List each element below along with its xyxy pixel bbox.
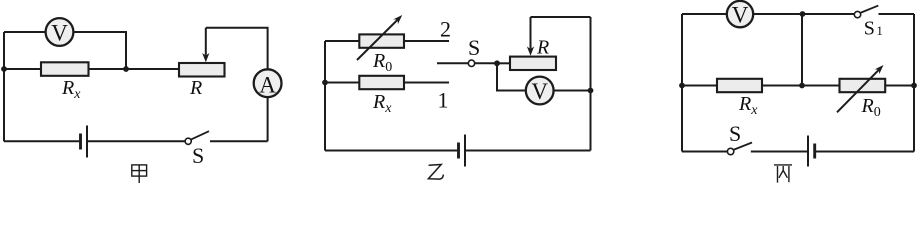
wire slider to ammeter C1 <box>206 28 268 69</box>
svg-text:S: S <box>729 121 741 146</box>
voltmeter V3 <box>727 1 753 28</box>
wire Rx to middle node C3 <box>762 85 802 87</box>
wire Rx to terminal 1 C2 <box>404 82 449 84</box>
switch S C1 <box>185 131 209 144</box>
svg-text:V: V <box>531 79 548 104</box>
svg-text:R: R <box>536 37 549 59</box>
switch S blade wire C2 <box>437 62 468 64</box>
node dot right of Rx C1 <box>123 66 129 72</box>
wire switch to battery C3 <box>751 151 807 153</box>
svg-text:S: S <box>468 35 480 60</box>
battery C2 <box>459 135 466 167</box>
ammeter A1 <box>254 69 282 97</box>
wire battery to right vertical C3 <box>815 151 914 153</box>
node dot left C1 <box>1 66 7 72</box>
wire voltmeter to S1 C3 <box>754 13 854 15</box>
resistor Rx C2 <box>359 76 404 89</box>
node dot after S C2 <box>494 60 500 66</box>
wire bottom right segment C2 <box>465 150 591 152</box>
wire voltmeter to right drop C1 <box>73 32 126 69</box>
battery C1 <box>81 126 88 158</box>
wire right vertical C3 <box>913 14 915 152</box>
node dot top C3 <box>800 11 806 17</box>
rheostat R0 arrow C3 <box>837 65 884 112</box>
rheostat R slider arrow C2 <box>527 17 534 56</box>
wire Rx row C2 <box>325 82 359 84</box>
wire battery to switch C1 <box>87 140 185 142</box>
svg-text:2: 2 <box>440 16 451 41</box>
wire mid row left C3 <box>682 85 717 87</box>
battery C3 <box>808 136 815 167</box>
wire voltmeter to right vertical C2 <box>554 90 591 92</box>
wire left vertical C1 <box>3 32 5 141</box>
svg-text:Rx: Rx <box>372 91 392 116</box>
wire pivot to node C2 <box>475 62 497 64</box>
wire switch to ammeter drop C1 <box>210 140 268 142</box>
resistor Rx C3 <box>717 79 762 92</box>
label 丙 <box>774 165 792 183</box>
wire top to voltmeter C3 <box>682 13 726 15</box>
label 乙 <box>428 165 443 180</box>
svg-text:Rx: Rx <box>738 93 758 118</box>
rheostat R0 C2 <box>359 34 404 47</box>
svg-text:R0: R0 <box>861 95 881 120</box>
rheostat slider arrow C1 <box>202 28 209 63</box>
svg-text:S1: S1 <box>864 18 883 40</box>
wire Rx to R C1 <box>89 68 180 70</box>
wire bottom left segment C1 <box>4 140 79 142</box>
wire S1 to right vertical C3 <box>879 13 915 15</box>
svg-text:Rx: Rx <box>61 77 81 102</box>
rheostat R C1 <box>179 63 225 77</box>
wire top branch to voltmeter C1 <box>4 31 46 33</box>
wire left vertical C3 <box>681 14 683 152</box>
wire ammeter down to bottom C1 <box>267 97 269 141</box>
node dot right C2 <box>588 88 594 94</box>
wire main row left C1 <box>4 68 41 70</box>
svg-text:V: V <box>732 3 749 28</box>
switch S pivot C2 <box>468 60 474 66</box>
wire top branch C2 <box>325 40 359 42</box>
wire R0 to terminal 2 C2 <box>404 40 449 42</box>
switch S1 C3 <box>854 6 878 18</box>
rheostat R0 arrow C2 <box>357 15 402 60</box>
switch S C3 <box>727 143 752 155</box>
wire middle node to R0 C3 <box>802 85 840 87</box>
svg-text:A: A <box>259 72 276 97</box>
svg-text:1: 1 <box>438 88 449 113</box>
wire slider loop to right vertical C2 <box>531 16 591 18</box>
svg-text:R: R <box>189 77 202 99</box>
voltmeter V1 <box>46 18 74 46</box>
rheostat R C2 <box>510 57 556 70</box>
svg-text:V: V <box>51 21 68 46</box>
wire middle vertical C3 <box>801 14 803 86</box>
resistor Rx C1 <box>41 62 89 76</box>
node dot mid-left C3 <box>679 83 685 89</box>
rheostat R0 C3 <box>840 79 886 92</box>
node dot middle C3 <box>799 83 805 89</box>
wire left vertical C2 <box>324 41 326 151</box>
svg-text:S: S <box>192 143 204 168</box>
wire node to R C2 <box>497 62 510 64</box>
voltmeter V2 <box>526 77 554 105</box>
svg-text:R0: R0 <box>372 50 392 75</box>
node dot left C2 <box>322 80 328 86</box>
node dot mid-right C3 <box>911 83 917 89</box>
wire R0 to right vertical C3 <box>885 85 914 87</box>
wire node down to voltmeter C2 <box>497 63 526 90</box>
wire bottom left segment C3 <box>682 151 727 153</box>
label 甲 <box>132 165 147 183</box>
wire bottom left segment C2 <box>325 150 457 152</box>
wire right vertical C2 <box>590 17 592 151</box>
